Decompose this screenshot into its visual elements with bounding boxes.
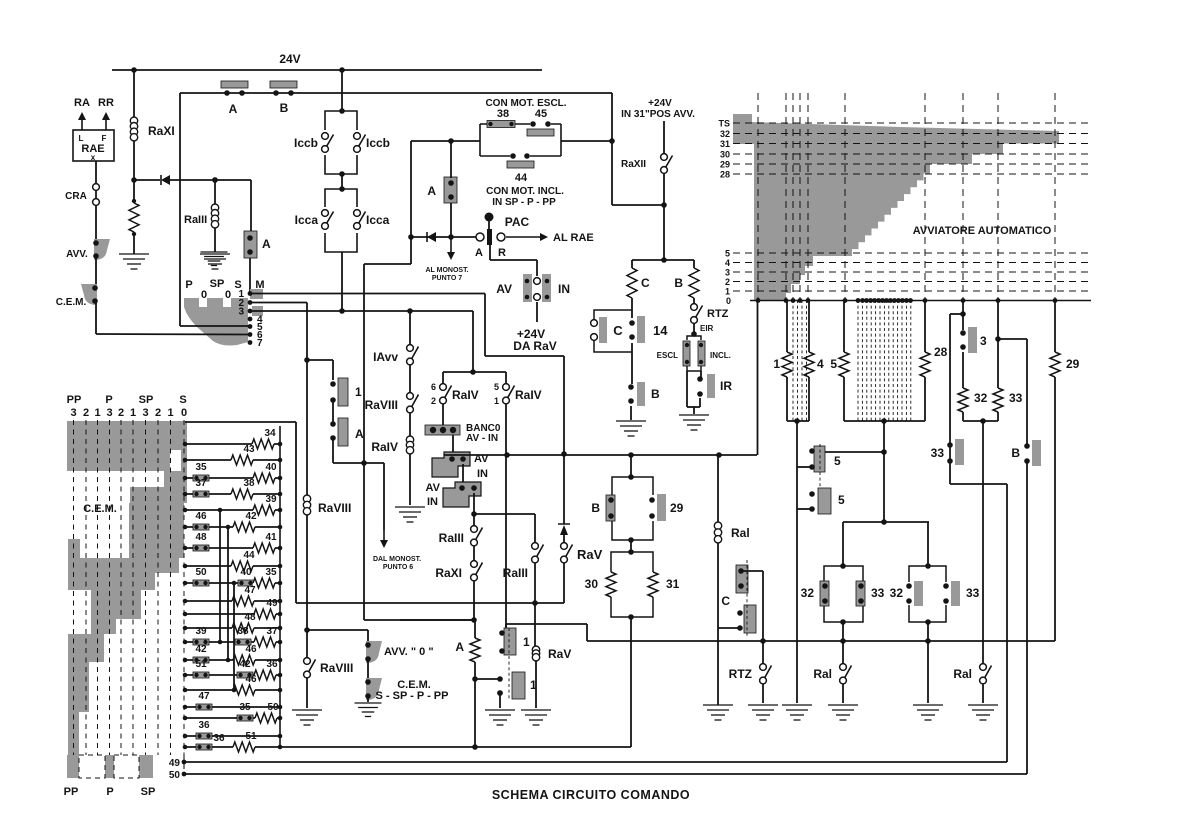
svg-text:3: 3 — [238, 307, 244, 318]
wire node to resistor — [133, 180, 135, 201]
svg-text:SP: SP — [141, 786, 156, 798]
cem bottom gray 1 — [67, 755, 79, 778]
cem vline x97.5 — [97, 420, 99, 755]
junction x475 y679 — [472, 676, 478, 682]
svg-text:AVV. " 0 ": AVV. " 0 " — [384, 646, 434, 658]
svg-text:L: L — [79, 134, 84, 143]
wire y630 right — [307, 629, 368, 631]
box B29 — [612, 477, 653, 540]
junction line0 x963 — [961, 298, 966, 303]
svg-text:SP: SP — [139, 394, 154, 406]
wire x307 down — [306, 515, 308, 630]
wire res C down — [631, 298, 633, 318]
ladder row y566 — [183, 550, 283, 572]
ground 1low — [485, 710, 515, 725]
ladder row y460 — [183, 444, 283, 466]
coil RaIII — [211, 177, 218, 252]
svg-text:B: B — [280, 101, 289, 115]
wire contact3 chain top — [962, 300, 964, 330]
svg-text:RaXI: RaXI — [435, 566, 462, 580]
resistor 4 — [804, 352, 814, 377]
junction row3 IAvv — [407, 308, 413, 314]
junction pair2 top — [925, 563, 931, 569]
diode mid — [427, 232, 436, 242]
svg-text:IN: IN — [427, 496, 438, 508]
switch Ral b — [980, 664, 992, 684]
svg-text:A: A — [475, 247, 483, 259]
ground Ral a — [828, 705, 858, 720]
wire top link pairs — [843, 521, 929, 523]
wire y620 line — [364, 619, 474, 621]
contact AVV. — [93, 239, 110, 260]
line 50 — [184, 773, 1027, 775]
svg-text:RaIV: RaIV — [515, 388, 542, 402]
drum notch 1 — [199, 298, 207, 307]
junction bus x507 — [504, 452, 510, 458]
wire row1 — [250, 293, 485, 295]
junction on 24V bus at Iccb — [339, 67, 345, 73]
wire RaIV to ground — [409, 454, 411, 505]
junction x451 diode line — [448, 234, 454, 240]
wire res28 drop — [924, 300, 926, 352]
wire RaIII mid down — [534, 563, 536, 603]
wire CRA to AVV — [95, 205, 97, 240]
arrow AL RAE — [506, 233, 548, 241]
svg-text:35: 35 — [265, 567, 277, 578]
wire +24V to RaXII — [663, 121, 665, 154]
svg-text:Iccb: Iccb — [366, 136, 390, 150]
junction top of resistor — [132, 199, 136, 203]
dashed bundle x880 — [879, 300, 881, 421]
wire row3 corner down — [472, 311, 474, 372]
contact Icca right — [354, 210, 366, 230]
ladder row y675 — [183, 659, 283, 681]
wire B low down — [1026, 461, 1028, 774]
svg-text:50: 50 — [169, 770, 181, 781]
junction line0 x1055 — [1053, 298, 1058, 303]
box ESCL-INCL — [687, 336, 701, 371]
wire pair1 down — [842, 622, 844, 641]
contact A col — [330, 418, 348, 446]
svg-text:1: 1 — [773, 357, 780, 371]
resistor 5 — [839, 352, 849, 377]
box contact C14 — [594, 310, 632, 352]
wire pair2 down — [927, 622, 929, 641]
svg-text:AVVIATORE AUTOMATICO: AVVIATORE AUTOMATICO — [913, 225, 1052, 237]
switch RaIII mid — [532, 543, 544, 563]
junction 641 pair2 — [925, 638, 931, 644]
svg-text:R: R — [498, 247, 506, 259]
junction line0 x862.5 — [860, 298, 865, 303]
wire res5 tail — [843, 377, 845, 421]
grid line 31 — [733, 143, 1091, 145]
wire y514 right — [474, 513, 535, 515]
wire res29 top — [1054, 300, 1056, 352]
junction line0 x910.5 — [908, 298, 913, 303]
wire PAC to AVIN — [490, 245, 537, 276]
ladder row y444 — [183, 428, 283, 450]
wire RaXII down — [663, 174, 665, 260]
grid line 30 — [733, 153, 1091, 155]
svg-text:x: x — [91, 153, 96, 162]
wire A down corner — [333, 438, 384, 463]
wire row2 — [250, 302, 307, 304]
junction 3031 top — [628, 549, 634, 555]
svg-text:4: 4 — [725, 258, 730, 268]
resistor below RaXI — [129, 203, 139, 232]
svg-text:31: 31 — [720, 139, 730, 149]
ground under ESCL — [679, 415, 709, 430]
junction line0 x998 — [996, 298, 1001, 303]
wire RaV coil down — [534, 603, 536, 646]
svg-text:Icca: Icca — [295, 213, 319, 227]
contact 5 second — [809, 488, 831, 514]
svg-text:IAvv: IAvv — [373, 350, 398, 364]
drum pad row1 — [250, 289, 263, 299]
ground CEM low — [355, 703, 382, 717]
svg-text:49: 49 — [169, 758, 181, 769]
svg-text:1: 1 — [130, 407, 136, 419]
ladder row y527 — [183, 511, 283, 533]
svg-text:A: A — [427, 184, 436, 198]
wire contact A top — [450, 141, 452, 178]
diode line y237 — [411, 236, 480, 238]
svg-text:51: 51 — [195, 659, 207, 670]
cem bottom gray 3 — [139, 755, 153, 778]
contact B29 left — [606, 495, 615, 521]
wire RaVIII low ground — [306, 678, 308, 708]
wire diode line left — [134, 179, 160, 181]
svg-text:A: A — [455, 640, 464, 654]
svg-text:Icca: Icca — [366, 213, 390, 227]
drum terminal 7 — [248, 340, 253, 345]
wire x1027 down — [1026, 339, 1028, 446]
svg-text:31: 31 — [666, 577, 680, 591]
wire res5 drop — [843, 300, 845, 352]
switch RaIV 5-1 — [503, 384, 515, 404]
wire pair2 ground — [927, 641, 929, 703]
svg-text:C: C — [641, 276, 650, 290]
contact A drum — [244, 231, 257, 258]
svg-text:35: 35 — [239, 702, 251, 713]
resistor 33 — [993, 388, 1003, 412]
wire C branch — [631, 260, 633, 268]
svg-text:1: 1 — [725, 287, 730, 297]
wire y603 line — [296, 602, 564, 604]
grid vline x998 — [997, 93, 999, 300]
svg-text:42: 42 — [195, 644, 207, 655]
junction line0 x882.5 — [880, 298, 885, 303]
svg-text:RaVIII: RaVIII — [318, 501, 351, 515]
wire branch down to contact1 — [332, 360, 334, 380]
svg-text:32: 32 — [720, 129, 730, 139]
svg-text:29: 29 — [1066, 357, 1080, 371]
box Icca — [325, 189, 357, 252]
svg-text:AL MONOST.: AL MONOST. — [425, 267, 468, 274]
svg-text:50: 50 — [195, 567, 207, 578]
svg-text:3: 3 — [142, 407, 148, 419]
junction pair2 bottom — [925, 619, 931, 625]
svg-text:PUNTO 7: PUNTO 7 — [432, 275, 462, 282]
cem vline x121 — [120, 420, 122, 755]
resistor 1 — [782, 352, 792, 377]
contact A top — [221, 81, 248, 96]
bus y641 — [587, 640, 1055, 642]
wire RaXI coil to node — [133, 141, 135, 180]
wire res33 top — [997, 300, 999, 388]
dashed bundle x889 — [888, 300, 890, 421]
svg-text:0: 0 — [181, 407, 187, 419]
svg-text:A: A — [262, 237, 271, 251]
svg-text:SCHEMA CIRCUITO COMANDO: SCHEMA CIRCUITO COMANDO — [492, 788, 690, 802]
wire RaV sw down — [563, 563, 565, 603]
wire B29 to 3031 — [630, 540, 632, 552]
junction line0 x902.5 — [900, 298, 905, 303]
wire row2 down — [306, 303, 308, 361]
wire to drum contact A — [250, 180, 252, 231]
svg-text:48: 48 — [244, 612, 256, 623]
contact AV step1 — [432, 452, 470, 477]
resistor B — [689, 268, 699, 298]
label +24V DA RaV — [513, 327, 557, 353]
wire row2 branch right — [307, 359, 333, 361]
ladder row y690 — [183, 674, 283, 696]
grid line 4 — [733, 262, 1091, 264]
cam notch white — [170, 450, 181, 471]
wire RTZ to EIR node — [693, 324, 695, 336]
drum terminal 1 — [248, 291, 253, 296]
svg-text:1: 1 — [94, 407, 100, 419]
cem vline x170.5 — [170, 420, 172, 755]
wire x950 down — [949, 314, 951, 484]
wire y314 left — [950, 313, 963, 315]
junction B29 bottom — [628, 537, 634, 543]
svg-text:IR: IR — [720, 379, 732, 393]
wire resA tail — [474, 662, 476, 747]
wire bus to Ral coil — [717, 455, 719, 522]
cem bottom gray 2 — [105, 755, 114, 778]
contact 38 — [487, 121, 515, 128]
contact B mid — [628, 382, 645, 406]
wire x797 down — [796, 421, 798, 703]
cem bottom box 1 — [79, 755, 105, 778]
dashed link 5 — [819, 444, 821, 514]
junction bus x719 — [716, 452, 722, 458]
junction line0 x870.5 — [868, 298, 873, 303]
wire 1low to ground — [499, 693, 501, 708]
junction line0 x890.5 — [888, 298, 893, 303]
wire row3 — [250, 310, 473, 312]
svg-text:41: 41 — [265, 532, 277, 543]
contact ESCL — [683, 341, 690, 366]
wire x884 down — [883, 421, 885, 522]
drum pad row3 — [252, 306, 263, 316]
svg-text:3: 3 — [106, 407, 112, 419]
wire 5-1 down tail — [505, 404, 507, 628]
svg-text:32: 32 — [801, 586, 815, 600]
wire row6 — [96, 333, 250, 336]
svg-text:TS: TS — [718, 119, 730, 129]
drum terminal 4 — [248, 317, 253, 322]
wire right end down — [611, 93, 613, 205]
junction bottom of resistor — [132, 232, 136, 236]
junction 49 left — [182, 760, 187, 765]
cem vline x184 — [183, 420, 185, 755]
wire y679 to contact1 — [475, 678, 500, 680]
junction 641 RTZ — [760, 638, 766, 644]
svg-text:S: S — [179, 394, 186, 406]
svg-text:B: B — [651, 387, 660, 401]
wire to RaVIII low — [306, 630, 308, 657]
grid vline x963 — [962, 93, 964, 300]
contact AVV 0 — [365, 641, 382, 663]
wire x474 to RaIII sw — [473, 514, 475, 526]
svg-text:4: 4 — [817, 357, 824, 371]
dashed link x793 — [792, 300, 794, 421]
svg-text:Ral: Ral — [953, 667, 972, 681]
wire y339 right — [998, 338, 1027, 340]
svg-text:C.E.M.: C.E.M. — [56, 297, 87, 308]
svg-text:33: 33 — [931, 446, 945, 460]
svg-text:29: 29 — [720, 160, 730, 170]
svg-text:47: 47 — [198, 691, 210, 702]
line 49 — [184, 761, 1007, 763]
contact BANCO — [425, 425, 460, 435]
contact C white — [591, 317, 607, 343]
svg-text:RTZ: RTZ — [707, 308, 729, 320]
drum comb — [184, 298, 248, 346]
ladder row y548 — [183, 532, 283, 554]
junction 746 x475 — [472, 744, 478, 750]
svg-text:B: B — [1011, 446, 1020, 460]
wire x475 down — [474, 620, 476, 638]
cem vline x86 — [85, 420, 87, 755]
wire line0 to bus — [757, 301, 759, 456]
svg-text:Ral: Ral — [731, 526, 750, 540]
wire res4 drop — [808, 300, 810, 352]
cem vline x158 — [157, 420, 159, 755]
box Iccb — [325, 111, 357, 174]
cem vline x145.5 — [145, 420, 147, 755]
wire RaV diode — [563, 454, 565, 524]
ground drum — [201, 252, 228, 266]
wire RTZ to ground — [762, 684, 764, 703]
junction bus x631 — [628, 452, 634, 458]
svg-text:42: 42 — [245, 511, 257, 522]
wire RaV coil ground — [535, 661, 537, 708]
junction x535 y603 — [532, 600, 538, 606]
junction x884 y522 — [881, 519, 887, 525]
svg-text:5: 5 — [830, 357, 837, 371]
cem bottom box 2 — [114, 755, 139, 778]
svg-text:RaIII: RaIII — [184, 214, 207, 226]
box RAE — [73, 130, 114, 161]
junction x998 y339 — [995, 336, 1001, 342]
svg-text:RaXII: RaXII — [621, 159, 646, 170]
ground pair2 — [913, 705, 943, 720]
wire res33 tail — [997, 412, 999, 421]
grid line 0 — [750, 300, 1091, 302]
wire row1 h2 — [485, 355, 564, 357]
svg-text:6: 6 — [431, 382, 436, 392]
dashed link x806.5 — [806, 300, 808, 421]
junction pair1 bottom — [840, 619, 846, 625]
wire C top right — [741, 571, 763, 641]
svg-text:DAL MONOST.: DAL MONOST. — [373, 556, 421, 563]
wire row5 — [180, 325, 250, 327]
wire banco down — [452, 435, 454, 455]
wire y422 S0 — [185, 421, 296, 423]
svg-text:36: 36 — [198, 720, 210, 731]
junction line0 x906.5 — [904, 298, 909, 303]
junction x474 y514 — [471, 511, 477, 517]
switch RaIV 6-2 — [440, 384, 452, 404]
contact Iccb left — [322, 133, 334, 153]
wire IAvv to RaVIII sw — [409, 365, 411, 392]
wire A-B contact line — [180, 92, 612, 94]
drum terminal 6 — [248, 332, 253, 337]
contact Iccb right — [354, 133, 366, 153]
junction line0 x878.5 — [876, 298, 881, 303]
svg-text:AV - IN: AV - IN — [466, 433, 498, 444]
svg-text:F: F — [102, 134, 107, 143]
wire bus to B29 box — [630, 455, 632, 477]
wire x411 down — [410, 141, 412, 264]
ladder row y478 — [183, 462, 283, 484]
svg-text:37: 37 — [266, 626, 278, 637]
svg-text:36: 36 — [213, 733, 225, 744]
ground under RaIV — [395, 507, 425, 522]
svg-text:RA: RA — [74, 97, 90, 109]
contact IR — [697, 374, 715, 398]
svg-text:EIR: EIR — [700, 324, 714, 333]
wire x296 up — [295, 422, 297, 603]
contact INCL — [698, 341, 705, 366]
svg-text:38: 38 — [497, 108, 509, 120]
resistor 31 — [648, 572, 658, 597]
wire x368 down — [367, 630, 369, 643]
wire 3 to res32 — [962, 352, 964, 388]
dashed bundle x893 — [892, 300, 894, 421]
ladder left rail — [184, 444, 186, 746]
svg-text:B: B — [674, 276, 683, 290]
contact pair2 33 — [943, 581, 960, 606]
svg-text:B: B — [591, 501, 600, 515]
svg-text:40: 40 — [265, 462, 277, 473]
svg-text:P: P — [185, 279, 192, 291]
svg-text:P: P — [105, 394, 112, 406]
dashed bundle x898 — [897, 300, 899, 421]
contact 45 — [527, 121, 554, 136]
svg-text:0: 0 — [726, 296, 731, 306]
svg-text:+24V: +24V — [648, 98, 672, 109]
junction x963 y314 — [960, 311, 966, 317]
contact PAC — [476, 213, 505, 246]
svg-text:3: 3 — [980, 334, 987, 348]
junction 641 pair1 — [840, 638, 846, 644]
junction line0 x800 — [798, 298, 803, 303]
svg-text:AV: AV — [496, 282, 512, 296]
box pair2 — [909, 566, 946, 622]
contact CEM low — [365, 678, 382, 700]
svg-text:CRA: CRA — [65, 191, 87, 202]
switch IAvv — [407, 345, 419, 365]
contact C low a — [736, 565, 748, 593]
junction line0 x758 — [756, 298, 761, 303]
wire y452 to contact5 — [824, 451, 884, 453]
svg-text:5: 5 — [834, 454, 841, 468]
svg-text:35: 35 — [195, 462, 207, 473]
